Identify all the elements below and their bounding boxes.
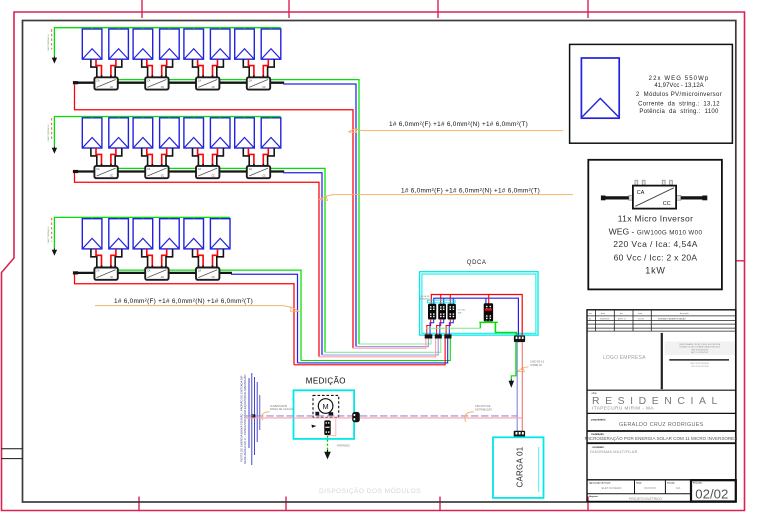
wire: breaker bottom leads: [427, 319, 454, 335]
terminal pad P2: [435, 334, 442, 338]
svg-text:Escala:: Escala:: [667, 482, 675, 484]
title block revision table: [587, 310, 736, 331]
wire: row2 AC green bus: [96, 168, 441, 352]
label: PV module data text: [636, 76, 722, 115]
svg-text:CC: CC: [110, 175, 114, 177]
svg-text:DISPOSIÇÃO DOS MÓDULOS: DISPOSIÇÃO DOS MÓDULOS: [319, 486, 421, 495]
micro inverter row3 U32: [145, 266, 168, 280]
svg-text:1kW: 1kW: [645, 266, 665, 276]
meter enclosure (cyan): [294, 390, 355, 439]
wire: row1 group1 DC leads: [91, 59, 122, 77]
terminal pad P1: [425, 334, 433, 338]
meter terminal right: [329, 412, 334, 416]
svg-text:CA: CA: [147, 270, 151, 273]
fold tick marks (crimson): [139, 0, 745, 510]
svg-text:XX/XX/XX: XX/XX/XX: [644, 486, 656, 490]
wire: QDCA neutral feeder (blue): [434, 298, 519, 335]
svg-text:11x Micro Inversor: 11x Micro Inversor: [618, 213, 694, 223]
wire: row2 AC phase bus (black): [73, 170, 284, 173]
svg-text:XX/XX/XX: XX/XX/XX: [600, 318, 610, 320]
svg-text:CC: CC: [212, 277, 216, 279]
PV module row1-1: [82, 28, 102, 60]
meter output connector: [352, 412, 360, 422]
PV module row3-1: [82, 217, 102, 249]
micro inverter row1 U12: [145, 75, 168, 89]
wire: row3 PV frame ground bus (green): [54, 217, 230, 248]
QDCA DIN rail (cyan strip): [428, 300, 456, 303]
wire: row1 group4 DC leads: [243, 59, 274, 77]
svg-text:Potência da string.: 1100: Potência da string.: 1100: [639, 109, 719, 115]
utility grid bars (blue): [249, 373, 260, 465]
load box CARGA 01 (cyan): [493, 437, 544, 498]
PV module row1-5: [184, 28, 204, 60]
svg-text:MICROGERAÇÃO POR ENERGIA SOLAR: MICROGERAÇÃO POR ENERGIA SOLAR COM 11 MI…: [585, 435, 738, 441]
svg-text:PROJETO ELÉTRICO: PROJETO ELÉTRICO: [629, 496, 662, 501]
svg-text:CC: CC: [161, 277, 165, 279]
PV module row3-2: [109, 217, 129, 249]
svg-text:CABO TERRA 6,0: CABO TERRA 6,0: [47, 34, 50, 52]
svg-text:COBRE NU: COBRE NU: [530, 365, 542, 367]
wire: meter earth (green dashed): [327, 436, 329, 450]
wire: QDCA earth bus (green): [426, 320, 516, 335]
title block signature cell: [665, 342, 735, 368]
QDCA output connector: [514, 336, 525, 343]
wire: row3 group1 DC leads: [91, 249, 122, 268]
PV module row2-3: [133, 117, 153, 149]
PV module row1-6: [210, 28, 230, 60]
svg-text:CC: CC: [161, 175, 165, 177]
legend PV module symbol: [581, 58, 619, 118]
wire: row2 AC neutral (blue): [283, 173, 438, 355]
svg-text:CA: CA: [198, 168, 202, 171]
micro inverter row1 U13: [196, 75, 219, 89]
svg-text:proprietário:: proprietário:: [591, 418, 606, 421]
svg-text:GERALDO CRUZ RODRIGUES: GERALDO CRUZ RODRIGUES: [619, 422, 704, 428]
node MEDICAO label: [306, 376, 346, 385]
label: output circuit note + leader: [465, 405, 492, 422]
wire: row1 AC neutral (blue): [283, 84, 428, 347]
wire: breaker bypass loop (pink): [328, 418, 336, 436]
PV module row1-7: [235, 28, 255, 60]
svg-text:Corrente da string.: 13,12: Corrente da string.: 13,12: [638, 102, 720, 108]
svg-text:QDCA 3F: QDCA 3F: [420, 295, 430, 298]
wire: row3 AC neutral (blue): [231, 274, 448, 363]
micro inverter row3 U33: [196, 266, 219, 280]
wire: meter to carga junction (pink): [360, 417, 523, 419]
svg-text:220 Vca / Ica: 4,54A: 220 Vca / Ica: 4,54A: [613, 239, 698, 249]
PV module row3-5: [184, 217, 204, 249]
svg-text:por: por: [620, 313, 623, 315]
svg-text:1# 6,0mm²(F) +1# 6,0mm²(N) +1#: 1# 6,0mm²(F) +1# 6,0mm²(N) +1# 6,0mm²(T): [401, 187, 540, 194]
svg-text:conteúdo:: conteúdo:: [592, 446, 604, 449]
label: utility pole note (rotated): [239, 374, 248, 464]
wire: row1 group3 DC leads: [193, 59, 224, 77]
PV module row2-5: [184, 117, 204, 149]
wire: row2 group1 DC leads: [91, 148, 122, 166]
circuit breaker CB3: [448, 304, 455, 319]
svg-text:S/A: S/A: [676, 486, 681, 490]
wire: row2 PV frame ground bus (green): [54, 117, 280, 147]
svg-text:60 Vcc / Icc: 2 x 20A: 60 Vcc / Icc: 2 x 20A: [614, 253, 698, 263]
svg-text:CABO TERRA 6,0: CABO TERRA 6,0: [47, 226, 50, 244]
svg-text:ATERRADO: ATERRADO: [337, 445, 350, 448]
micro inverter row3 U31: [94, 266, 117, 280]
wire: meter to carga junction (lavender dashed): [360, 415, 517, 417]
circuit breaker CB1: [429, 304, 436, 319]
terminal pad P3: [444, 334, 451, 338]
svg-text:CA: CA: [198, 270, 202, 273]
ground arrow at QDCA drop: [509, 379, 515, 388]
wire: row3 AC phase bus (black): [73, 271, 232, 274]
micro inverter row1 U11: [94, 75, 117, 89]
svg-text:descrição: descrição: [680, 312, 689, 315]
svg-text:CA: CA: [147, 79, 151, 82]
svg-text:22x WEG 550Wp: 22x WEG 550Wp: [649, 76, 710, 82]
PV module row1-8: [261, 28, 281, 60]
svg-text:CC: CC: [212, 175, 216, 177]
PV module row2-7: [235, 117, 255, 149]
junction: service tap: [251, 414, 255, 418]
svg-text:2 Módulos PV/microinversor: 2 Módulos PV/microinversor: [636, 92, 722, 98]
PV module row1-4: [160, 28, 180, 60]
PV module row2-2: [109, 117, 129, 149]
svg-text:CARGA 01: CARGA 01: [515, 447, 524, 488]
svg-text:CA: CA: [249, 168, 253, 171]
circuit breaker CB2: [439, 304, 446, 319]
wire: row2 group2 DC leads: [142, 148, 173, 166]
micro inverter row2 U23: [196, 164, 219, 178]
svg-text:Data:: Data:: [637, 481, 643, 484]
svg-text:CC: CC: [212, 87, 216, 89]
svg-text:DISTRIBUIÇÃO: DISTRIBUIÇÃO: [475, 408, 492, 411]
wire: row1 PV frame ground bus (green): [54, 28, 280, 57]
svg-text:CA: CA: [198, 79, 202, 82]
PV module row3-3: [133, 217, 153, 249]
svg-text:02/02: 02/02: [695, 486, 728, 501]
svg-text:Prancha:: Prancha:: [693, 483, 703, 485]
label: row1 ground note (rotated): [47, 34, 50, 52]
PV module row1-3: [133, 28, 153, 60]
svg-text:CC: CC: [161, 87, 165, 89]
svg-text:DIAGRAMA MULTIFILAR: DIAGRAMA MULTIFILAR: [590, 450, 637, 454]
wire: row2 group3 DC leads: [193, 148, 224, 166]
svg-text:41,97Vcc - 13,12A: 41,97Vcc - 13,12A: [654, 83, 703, 89]
svg-text:MEDIÇÃO: MEDIÇÃO: [306, 376, 346, 385]
wire: row1 AC phase bus (black): [73, 81, 284, 84]
svg-text:RNP XXXXXXXXXX: RNP XXXXXXXXXX: [691, 349, 709, 351]
svg-text:CC: CC: [262, 87, 266, 89]
svg-text:CA: CA: [147, 168, 151, 171]
legend box: micro inverter data: [588, 160, 722, 290]
svg-text:obra:: obra:: [592, 392, 598, 395]
svg-text:CC: CC: [110, 277, 114, 279]
wire: row3 ground marker (red dashed): [51, 218, 53, 242]
PV module row3-6: [210, 217, 230, 249]
micro inverter row2 U22: [145, 164, 168, 178]
legend box: PV module data: [570, 44, 733, 143]
wire: row3 AC return (red): [75, 274, 446, 364]
svg-text:01: 01: [589, 318, 592, 320]
svg-text:EMISSÃO PARA APROVAÇÃO: EMISSÃO PARA APROVAÇÃO: [658, 317, 686, 320]
svg-text:ITAPECURU MIRIM - MA: ITAPECURU MIRIM - MA: [592, 405, 654, 410]
svg-text:REDE AÉREA 220 V – CONCESSIONÁ: REDE AÉREA 220 V – CONCESSIONÁRIA EQUATO…: [242, 374, 247, 464]
meter terminal left: [315, 412, 319, 416]
svg-text:CC: CC: [262, 175, 266, 177]
PV module row2-4: [160, 117, 180, 149]
svg-text:32A: 32A: [458, 311, 462, 314]
legend inverter AC lead right: [681, 196, 706, 199]
left margin strip dividers: [2, 449, 23, 459]
label: row3 AC circuit cable spec: [95, 298, 300, 312]
wire: service entrance (lavender dashed): [246, 415, 352, 417]
svg-text:1# 6,0mm²(F) +1# 6,0mm²(N) +1#: 1# 6,0mm²(F) +1# 6,0mm²(N) +1# 6,0mm²(T): [389, 121, 528, 128]
ground arrow row1: [52, 56, 57, 63]
title block approval row: [587, 480, 736, 501]
svg-text:Aprovação do fiscal:: Aprovação do fiscal:: [589, 481, 611, 484]
svg-text:CA: CA: [637, 190, 645, 196]
wire: row1 ground marker (red dashed): [51, 29, 53, 49]
label: QDCA feeder note: [420, 295, 430, 301]
label: CARGA 01 (rotated): [515, 447, 524, 488]
PV module row2-1: [82, 117, 102, 149]
svg-text:rev: rev: [589, 313, 592, 315]
wire: row1 group2 DC leads: [142, 59, 173, 77]
svg-text:CC: CC: [110, 87, 114, 89]
PV module row3-4: [160, 217, 180, 249]
title block proprietario cell: [587, 413, 736, 428]
micro inverter row2 U21: [94, 164, 117, 178]
svg-text:CC: CC: [663, 201, 671, 207]
main breaker (meter): [324, 420, 330, 435]
wire: service entrance (pink): [246, 417, 352, 419]
QDCA enclosure (cyan double box): [420, 272, 538, 335]
wire: meter feeder vertical (red): [521, 342, 523, 431]
svg-text:CABO DE 6,0: CABO DE 6,0: [530, 361, 545, 364]
svg-text:M: M: [323, 402, 329, 411]
wire: row3 AC green bus: [96, 270, 450, 360]
micro inverter row1 U14: [247, 75, 270, 89]
ground arrow at meter: [324, 450, 331, 460]
svg-text:RAMAL DE LIGAÇÃO: RAMAL DE LIGAÇÃO: [270, 408, 294, 411]
legend inverter symbol: [601, 180, 707, 208]
title block obra cell: [587, 390, 736, 410]
svg-text:CA: CA: [249, 79, 253, 82]
title block conteudo cell: [587, 443, 736, 454]
surge protector DPS: [484, 304, 492, 321]
watermark: DISPOSICAO DOS MODULOS: [319, 486, 421, 495]
ground arrow row3: [52, 249, 57, 256]
micro inverter row2 U24: [247, 164, 270, 178]
svg-text:CA: CA: [96, 168, 100, 171]
wire: row2 AC return (red): [75, 173, 436, 357]
svg-text:ASS. RESPONSÁVEL: ASS. RESPONSÁVEL: [690, 362, 709, 365]
wire: row1 AC green bus: [96, 80, 431, 344]
PV module row1-2: [109, 28, 129, 60]
svg-text:1# 6,0mm²(F) +1# 6,0mm²(N) +1#: 1# 6,0mm²(F) +1# 6,0mm²(N) +1# 6,0mm²(T): [114, 298, 253, 305]
svg-text:FULANO DE TAL OLIVEIRA CREA: FULANO DE TAL OLIVEIRA CREA XXXXXXX-X: [679, 346, 720, 349]
wire: row2 group4 DC leads: [243, 148, 274, 166]
PV module row2-8: [261, 117, 281, 149]
svg-text:CABO TERRA 6,0: CABO TERRA 6,0: [47, 124, 50, 142]
energy meter M: [318, 399, 333, 414]
title block logo cell: [603, 333, 662, 389]
wire: breaker top drops: [441, 295, 489, 305]
title block sheet number cell 02/02: [691, 480, 736, 501]
svg-text:Arquivo:: Arquivo:: [589, 495, 598, 498]
wire: row2 ground marker (red dashed): [51, 118, 53, 139]
symbol: breaker actuator: [312, 425, 317, 428]
svg-text:ENG. ELETRICISTA: ENG. ELETRICISTA: [691, 365, 709, 368]
title block outline: [587, 310, 736, 502]
svg-text:ELET. O.: ELET. O.: [618, 318, 626, 320]
label: row3 ground note (rotated): [47, 226, 50, 244]
label: service note + leader: [262, 405, 294, 420]
svg-text:ART N. XXXXXXXX: ART N. XXXXXXXX: [691, 351, 708, 354]
label: aterrado: [337, 445, 350, 448]
node QDCA label: [467, 260, 487, 266]
svg-text:visto: visto: [638, 312, 643, 315]
PV module row2-6: [210, 117, 230, 149]
svg-text:RESPONSÁVEL TÉCNICO ENG. ELETR: RESPONSÁVEL TÉCNICO ENG. ELETRICISTA: [679, 343, 720, 346]
label: earth drop note: [518, 361, 545, 372]
label: breaker rating note: [458, 310, 467, 315]
svg-text:LOGO EMPRESA: LOGO EMPRESA: [603, 355, 646, 361]
wire: meter feeder vertical (blue): [516, 342, 518, 431]
label: row2 ground note (rotated): [47, 124, 50, 142]
svg-text:WEG - GIW100G M010 W00: WEG - GIW100G M010 W00: [609, 226, 703, 236]
wire: QDCA earth drop (green): [511, 342, 516, 379]
wire: row3 group3 DC leads: [193, 249, 224, 268]
svg-text:QDCA: QDCA: [467, 260, 487, 266]
label: micro inverter data text: [609, 213, 703, 275]
label: row1 AC circuit cable spec: [349, 121, 564, 133]
svg-text:CA: CA: [96, 79, 100, 82]
title block instalacao cell: [585, 431, 738, 441]
svg-text:CA: CA: [96, 270, 100, 273]
wire: QDCA phase feeder (red): [431, 295, 522, 336]
wire: row1 AC return (red): [75, 84, 426, 348]
svg-text:2x DISJ.: 2x DISJ.: [458, 310, 467, 312]
svg-text:BIFASICO: BIFASICO: [420, 298, 430, 301]
meter dashed box: [313, 395, 339, 417]
svg-text:data: data: [601, 312, 606, 315]
svg-text:ELET OLIVEIRA: ELET OLIVEIRA: [602, 486, 622, 490]
legend inverter AC lead left: [602, 196, 629, 199]
label: row2 AC circuit cable spec: [319, 187, 573, 200]
svg-text:G.C.R.: G.C.R.: [638, 318, 645, 320]
ground arrow row2: [52, 147, 57, 154]
carga input connector: [514, 431, 525, 438]
wire: row3 group2 DC leads: [142, 249, 173, 268]
